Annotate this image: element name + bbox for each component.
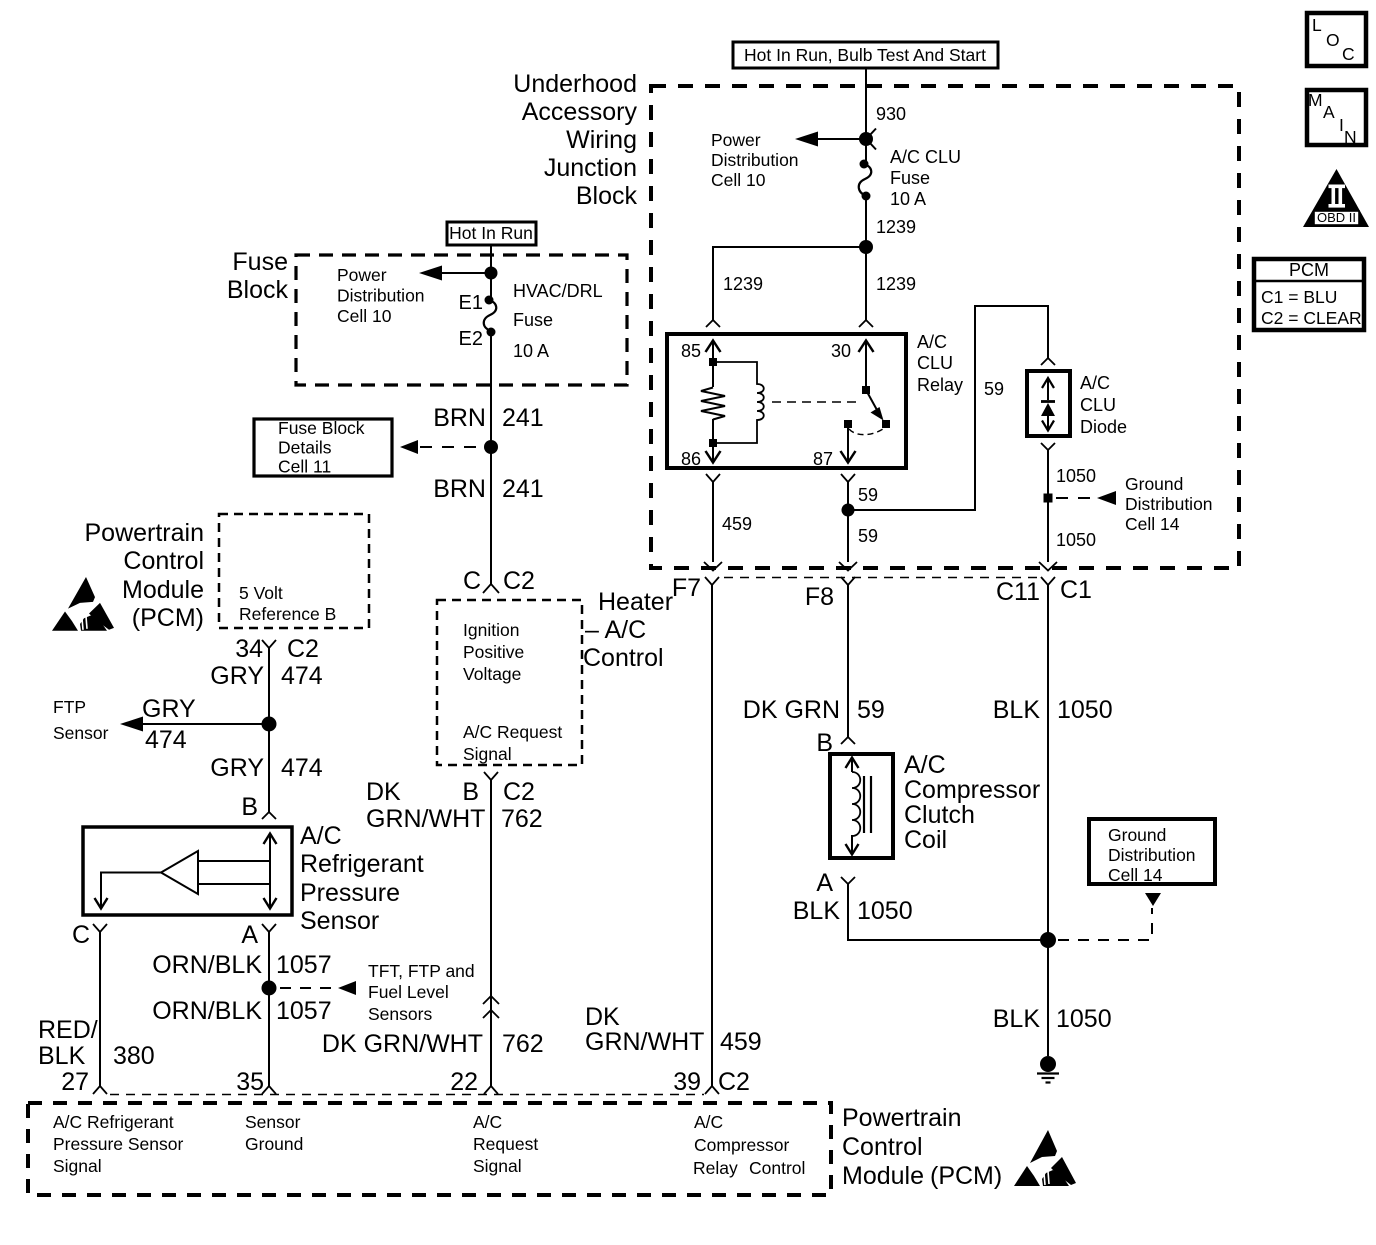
svg-text:34: 34 <box>235 635 263 663</box>
svg-text:930: 930 <box>876 104 906 124</box>
connector F8 start <box>841 577 855 585</box>
svg-text:459: 459 <box>720 1028 762 1056</box>
connector start below sensor pin A <box>262 924 276 932</box>
heater A/C control dashed box <box>437 600 582 765</box>
svg-text:DK: DK <box>366 778 401 806</box>
svg-text:GRN/WHT: GRN/WHT <box>585 1028 704 1056</box>
svg-text:1050: 1050 <box>1056 530 1096 550</box>
svg-text:Sensors: Sensors <box>368 1004 432 1024</box>
label A/C Request Signal (PCM) <box>473 1112 538 1176</box>
label FTP Sensor <box>53 697 109 743</box>
relay actuation dashed link <box>772 401 860 403</box>
node junction to FTP sensor <box>262 717 277 732</box>
label Fuse Block <box>227 248 289 304</box>
relay pin 87 contact junction <box>844 420 852 428</box>
svg-text:BRN: BRN <box>433 404 486 432</box>
svg-text:Cell 14: Cell 14 <box>1108 865 1163 885</box>
svg-text:A/C: A/C <box>694 1112 723 1132</box>
svg-text:Hot In Run, Bulb Test And Star: Hot In Run, Bulb Test And Start <box>744 45 986 65</box>
svg-text:10 A: 10 A <box>890 189 926 209</box>
svg-text:Block: Block <box>227 276 289 304</box>
svg-text:C11: C11 <box>996 578 1040 606</box>
svg-text:Fuel Level: Fuel Level <box>368 982 449 1002</box>
connector start below relay pin 87 <box>841 474 855 482</box>
connector 34 of C2 start <box>262 640 276 648</box>
svg-text:459: 459 <box>722 514 752 534</box>
wire down to relay pin 30 <box>865 247 867 320</box>
svg-text:A/C Request: A/C Request <box>463 722 562 742</box>
node split junction <box>859 240 873 254</box>
label RED/ BLK <box>38 1016 98 1070</box>
svg-text:Cell 10: Cell 10 <box>337 306 392 326</box>
svg-text:Request: Request <box>473 1134 538 1154</box>
svg-text:B: B <box>241 793 258 821</box>
svg-text:PCM: PCM <box>1289 260 1329 280</box>
svg-text:30: 30 <box>831 341 851 361</box>
relay coil winding (parallel inductor) <box>713 362 764 443</box>
svg-text:10 A: 10 A <box>513 341 549 361</box>
diode A/C CLU Diode box <box>1027 371 1070 436</box>
svg-text:Control: Control <box>749 1158 805 1178</box>
svg-text:1239: 1239 <box>876 274 916 294</box>
svg-text:TFT, FTP and: TFT, FTP and <box>368 961 475 981</box>
svg-text:474: 474 <box>281 754 323 782</box>
svg-text:Relay: Relay <box>917 375 963 395</box>
svg-text:Compressor: Compressor <box>694 1135 789 1155</box>
wire DK GRN 59 from F8 to coil <box>847 585 849 737</box>
svg-text:39: 39 <box>673 1068 701 1096</box>
connector end into PCM pin 22 <box>484 1086 498 1094</box>
svg-text:Signal: Signal <box>463 744 512 764</box>
svg-text:C1 = BLU: C1 = BLU <box>1261 287 1337 307</box>
svg-text:1057: 1057 <box>276 997 332 1025</box>
connector start below sensor pin C <box>93 924 107 932</box>
node splice junction at power distribution tap <box>859 132 873 146</box>
svg-text:A/C: A/C <box>1080 373 1110 393</box>
coil winding symbol <box>846 758 872 855</box>
svg-text:C1: C1 <box>1060 576 1092 604</box>
svg-text:Distribution: Distribution <box>711 150 799 170</box>
connector C1 start at pin C11 <box>1041 577 1055 585</box>
label A/C CLU Fuse 10 A <box>890 147 961 209</box>
svg-text:GRY: GRY <box>142 695 196 723</box>
wire fuse to split junction <box>865 196 867 247</box>
dashed reference to Ground Distribution Cell 14 (lower) <box>1058 893 1161 940</box>
ESD sensitive symbol upper left <box>52 577 114 631</box>
svg-text:35: 35 <box>236 1068 264 1096</box>
connector end into relay pin 30 <box>859 320 873 327</box>
svg-text:86: 86 <box>681 449 701 469</box>
svg-text:C: C <box>72 921 90 949</box>
relay pin 86 arrow <box>706 447 721 463</box>
relay switch pivot junction <box>862 386 870 394</box>
dashed reference arrow to TFT FTP and Fuel Level Sensors <box>280 981 356 995</box>
label A/C Compressor Clutch Coil <box>904 751 1040 854</box>
connector start below relay pin 86 <box>706 474 720 482</box>
svg-text:Cell 11: Cell 11 <box>278 457 331 477</box>
svg-text:Details: Details <box>278 438 332 458</box>
svg-text:762: 762 <box>502 1030 544 1058</box>
thin dashed connector strip below underhood box <box>724 577 1040 579</box>
wire GRY 474 upper <box>268 648 270 812</box>
svg-text:85: 85 <box>681 341 701 361</box>
relay pin 85 arrow <box>706 341 721 363</box>
svg-text:Cell 10: Cell 10 <box>711 170 766 190</box>
wire BLK 1050 from C1 down to ground <box>1047 585 1049 1056</box>
svg-text:F8: F8 <box>805 583 834 611</box>
thin dashed connector strip above PCM box <box>110 1094 704 1096</box>
svg-text:1050: 1050 <box>1056 466 1096 486</box>
label TFT FTP and Fuel Level Sensors <box>368 961 475 1024</box>
svg-text:Positive: Positive <box>463 642 524 662</box>
svg-text:E1: E1 <box>459 292 483 314</box>
label Power Distribution Cell 10 (fuse block) <box>337 265 425 326</box>
svg-text:BLK: BLK <box>993 1005 1041 1033</box>
svg-text:M: M <box>1308 90 1323 110</box>
node junction to TFT FTP sensors <box>262 981 277 996</box>
connector end into PCM pin 39 <box>705 1086 719 1094</box>
node junction on 59 wire <box>842 504 855 517</box>
svg-text:(PCM): (PCM) <box>132 604 204 632</box>
svg-text:HVAC/DRL: HVAC/DRL <box>513 281 603 301</box>
svg-text:FTP: FTP <box>53 697 86 717</box>
svg-text:Fuse: Fuse <box>513 310 553 330</box>
svg-text:A/C: A/C <box>904 751 946 779</box>
svg-text:762: 762 <box>501 805 543 833</box>
svg-text:C: C <box>463 567 481 595</box>
svg-text:A/C: A/C <box>917 332 947 352</box>
svg-text:1057: 1057 <box>276 951 332 979</box>
wire branch to relay pin 85 <box>713 247 866 320</box>
wire 59 from relay 87 to F8 <box>847 482 849 562</box>
node junction at power distribution tap (fuse block) <box>485 267 498 280</box>
svg-text:CLU: CLU <box>917 353 953 373</box>
svg-text:1050: 1050 <box>857 897 913 925</box>
svg-text:A/C Refrigerant: A/C Refrigerant <box>53 1112 174 1132</box>
label Powertrain Control Module (PCM) upper left <box>85 519 205 632</box>
svg-text:F7: F7 <box>672 574 701 602</box>
coil A/C Compressor Clutch Coil box <box>830 754 893 858</box>
svg-text:Voltage: Voltage <box>463 664 521 684</box>
wire 459 from relay 86 to F7 <box>712 482 714 562</box>
relay switch arm arrow <box>866 390 884 421</box>
svg-text:Ignition: Ignition <box>463 620 519 640</box>
relay pin 87 arrow <box>841 428 856 463</box>
svg-text:Accessory: Accessory <box>522 98 638 126</box>
wire DK GRN/WHT 459 from F7 to pin 39 <box>711 585 713 1086</box>
svg-text:5 Volt: 5 Volt <box>239 583 283 603</box>
arrowhead into underhood border at F8 <box>839 562 857 571</box>
Underhood Accessory Wiring Junction Block dashed box <box>651 86 1239 568</box>
ESD sensitive symbol bottom right <box>1014 1130 1076 1186</box>
diode internal symbol <box>1041 378 1055 431</box>
svg-text:Junction: Junction <box>544 154 637 182</box>
svg-text:C: C <box>1342 44 1355 64</box>
label HVAC/DRL Fuse 10 A <box>513 281 603 361</box>
ground symbol <box>1037 1056 1059 1083</box>
svg-text:Sensor: Sensor <box>53 723 109 743</box>
svg-text:GRY: GRY <box>210 662 264 690</box>
svg-text:Relay: Relay <box>693 1158 738 1178</box>
svg-text:Control: Control <box>842 1133 923 1161</box>
svg-text:B: B <box>462 778 479 806</box>
svg-text:Block: Block <box>576 182 638 210</box>
svg-text:C2 = CLEAR: C2 = CLEAR <box>1261 308 1362 328</box>
svg-text:474: 474 <box>281 662 323 690</box>
svg-text:BLK: BLK <box>993 696 1041 724</box>
svg-text:Distribution: Distribution <box>1108 845 1196 865</box>
label Heater - A/C Control <box>583 588 673 672</box>
sensor output line with arrow <box>95 873 162 909</box>
svg-text:Sensor: Sensor <box>300 907 379 935</box>
svg-text:Compressor: Compressor <box>904 776 1040 804</box>
wire from Hot In Run into fuse block <box>490 245 492 300</box>
label Powertrain Control Module (PCM) bottom <box>842 1104 1002 1190</box>
Hot In Run label box <box>447 222 536 245</box>
label A/C Request Signal (inside box) <box>463 722 562 764</box>
resistor inside relay <box>701 362 725 443</box>
svg-text:59: 59 <box>857 696 885 724</box>
wire 930 from Hot In Run down to junction <box>865 68 867 139</box>
label A/C Compressor Relay Control <box>693 1112 805 1178</box>
svg-text:Powertrain: Powertrain <box>842 1104 962 1132</box>
svg-text:1239: 1239 <box>723 274 763 294</box>
svg-text:Ground: Ground <box>1108 825 1166 845</box>
wire 59 loop from junction to diode <box>848 306 1048 510</box>
svg-text:A: A <box>816 869 833 897</box>
sensor internal supply line with arrows <box>264 834 277 909</box>
svg-text:C2: C2 <box>718 1068 750 1096</box>
svg-text:ORN/BLK: ORN/BLK <box>152 997 262 1025</box>
svg-text:C2: C2 <box>287 635 319 663</box>
svg-text:OBD II: OBD II <box>1317 210 1356 225</box>
connector end into diode top <box>1041 358 1055 365</box>
wire RED/BLK 380 <box>99 932 101 1086</box>
svg-text:Control: Control <box>583 644 664 672</box>
svg-text:Distribution: Distribution <box>1125 494 1213 514</box>
wire arrow to Power Distribution Cell 10 (fuse block) <box>419 266 485 281</box>
connector end into PCM pin 35 <box>262 1086 276 1094</box>
svg-text:87: 87 <box>813 449 833 469</box>
Ground Distribution Cell 14 box (lower) <box>1089 819 1215 885</box>
Hot In Run, Bulb Test And Start label box <box>733 42 998 68</box>
OBD II icon triangle <box>1303 169 1369 227</box>
wire arrow to FTP Sensor <box>120 717 262 732</box>
svg-text:Wiring: Wiring <box>566 126 637 154</box>
svg-text:Pressure Sensor: Pressure Sensor <box>53 1134 184 1154</box>
label Ground Distribution Cell 14 (upper) <box>1125 474 1213 534</box>
relay switch dashed throw arc <box>849 429 883 435</box>
svg-text:Hot In Run: Hot In Run <box>449 223 533 243</box>
fuse block dashed box <box>296 255 627 385</box>
label A/C Refrigerant Pressure Sensor <box>300 822 424 935</box>
svg-text:Sensor: Sensor <box>245 1112 301 1132</box>
svg-text:1050: 1050 <box>1056 1005 1112 1033</box>
svg-text:Powertrain: Powertrain <box>85 519 205 547</box>
svg-text:Clutch: Clutch <box>904 801 975 829</box>
node junction of coil return and ground wire <box>1040 932 1056 948</box>
connector end into PCM pin 27 <box>93 1086 107 1094</box>
svg-text:DK GRN/WHT: DK GRN/WHT <box>322 1030 483 1058</box>
svg-text:C2: C2 <box>503 567 535 595</box>
relay coil bottom junction <box>709 439 717 447</box>
dashed reference arrow to Ground Distribution Cell 14 <box>1056 491 1116 505</box>
wire arrow to Power Distribution Cell 10 <box>795 132 860 147</box>
connector start below coil pin A <box>841 877 855 884</box>
Fuse Block Details Cell 11 box <box>254 418 392 477</box>
svg-text:A: A <box>1323 102 1335 122</box>
svg-text:A/C CLU: A/C CLU <box>890 147 961 167</box>
wire DK GRN/WHT 762 down <box>490 780 492 1086</box>
connector end into relay pin 85 <box>706 320 720 327</box>
wire BRN 241 from fuse to junction <box>490 332 492 447</box>
svg-text:Refrigerant: Refrigerant <box>300 850 424 878</box>
PCM connector legend table <box>1254 259 1364 330</box>
dashed reference arrow to Fuse Block Details <box>400 440 480 454</box>
fuse HVAC/DRL Fuse 10 A <box>484 296 497 337</box>
svg-text:Coil: Coil <box>904 826 947 854</box>
svg-text:Fuse Block: Fuse Block <box>278 418 365 438</box>
svg-text:O: O <box>1326 30 1340 50</box>
node square tap to ground distribution <box>1044 494 1053 503</box>
wire BRN 241 from junction to connector C <box>490 447 492 584</box>
svg-text:A/C: A/C <box>300 822 342 850</box>
wire ORN/BLK 1057 <box>268 932 270 1086</box>
sensor A/C Refrigerant Pressure Sensor box <box>83 827 292 915</box>
svg-text:Signal: Signal <box>53 1156 102 1176</box>
svg-text:Ground: Ground <box>245 1134 303 1154</box>
svg-text:22: 22 <box>450 1068 478 1096</box>
svg-text:Signal: Signal <box>473 1156 522 1176</box>
svg-text:59: 59 <box>984 379 1004 399</box>
wire junction to fuse <box>865 139 867 164</box>
svg-text:Module: Module <box>842 1162 924 1190</box>
wire break chevrons <box>483 996 499 1018</box>
label A/C CLU Relay <box>917 332 963 395</box>
svg-text:Fuse: Fuse <box>232 248 288 276</box>
svg-text:1050: 1050 <box>1057 696 1113 724</box>
arrowhead into underhood border at F7 <box>704 562 722 571</box>
arrowhead into underhood border at C1 <box>1039 562 1057 571</box>
connector F7 start <box>705 577 719 585</box>
label A/C Refrigerant Pressure Sensor Signal <box>53 1112 184 1176</box>
svg-text:BLK: BLK <box>38 1042 86 1070</box>
svg-text:A/C: A/C <box>473 1112 502 1132</box>
label DK GRN/WHT upper <box>366 778 485 833</box>
svg-text:Underhood: Underhood <box>513 70 637 98</box>
label Sensor Ground <box>245 1112 303 1154</box>
svg-text:CLU: CLU <box>1080 395 1116 415</box>
svg-text:GRY: GRY <box>210 754 264 782</box>
svg-text:380: 380 <box>113 1042 155 1070</box>
svg-text:27: 27 <box>61 1068 89 1096</box>
relay pin 30 arrow <box>859 341 874 391</box>
relay switch contact junction <box>882 420 890 428</box>
svg-text:Heater: Heater <box>598 588 673 616</box>
svg-text:C2: C2 <box>503 778 535 806</box>
svg-text:Fuse: Fuse <box>890 168 930 188</box>
label Power Distribution Cell 10 (underhood) <box>711 130 799 190</box>
connector end into sensor pin B <box>262 812 276 819</box>
svg-text:Power: Power <box>711 130 761 150</box>
svg-text:Cell 14: Cell 14 <box>1125 514 1180 534</box>
Underhood Accessory Wiring Junction Block label <box>513 70 637 210</box>
wire 1050 from diode to C1 <box>1047 450 1049 562</box>
svg-text:(PCM): (PCM) <box>930 1162 1002 1190</box>
5 Volt Reference B dashed box <box>219 514 369 628</box>
svg-text:59: 59 <box>858 526 878 546</box>
svg-text:RED/: RED/ <box>38 1016 98 1044</box>
MAIN icon box <box>1307 90 1366 147</box>
svg-text:Reference B: Reference B <box>239 604 336 624</box>
connector end into coil pin B <box>841 737 855 744</box>
svg-text:Module: Module <box>122 576 204 604</box>
svg-text:Distribution: Distribution <box>337 286 425 306</box>
svg-text:Control: Control <box>123 547 204 575</box>
PCM bottom dashed box <box>28 1103 831 1195</box>
svg-text:474: 474 <box>145 726 187 754</box>
node junction to fuse block details <box>484 440 498 454</box>
svg-text:241: 241 <box>502 404 544 432</box>
connector start below diode <box>1041 443 1055 450</box>
svg-text:DK GRN: DK GRN <box>743 696 840 724</box>
svg-text:Power: Power <box>337 265 387 285</box>
svg-text:Diode: Diode <box>1080 417 1127 437</box>
relay A/C CLU Relay box <box>667 334 906 468</box>
sensor input lines <box>198 861 270 884</box>
connector end C of C2 <box>483 584 499 593</box>
svg-text:GRN/WHT: GRN/WHT <box>366 805 485 833</box>
svg-text:L: L <box>1312 15 1322 35</box>
svg-text:BLK: BLK <box>793 897 841 925</box>
svg-text:A: A <box>241 921 258 949</box>
label A/C CLU Diode <box>1080 373 1127 437</box>
svg-text:E2: E2 <box>459 328 483 350</box>
svg-text:N: N <box>1344 127 1357 147</box>
svg-text:1239: 1239 <box>876 217 916 237</box>
LOC icon box <box>1307 13 1366 66</box>
label Ignition Positive Voltage <box>463 620 524 684</box>
svg-text:– A/C: – A/C <box>585 616 646 644</box>
relay coil top junction <box>709 358 717 366</box>
svg-text:Pressure: Pressure <box>300 879 400 907</box>
wire BLK 1050 from coil A to ground junction <box>848 884 1048 940</box>
svg-text:Ground: Ground <box>1125 474 1183 494</box>
fuse A/C CLU Fuse 10 A <box>859 160 872 201</box>
svg-text:ORN/BLK: ORN/BLK <box>152 951 262 979</box>
connector B of C2 start <box>484 772 498 780</box>
svg-text:241: 241 <box>502 475 544 503</box>
svg-text:DK: DK <box>585 1003 620 1031</box>
svg-text:BRN: BRN <box>433 475 486 503</box>
svg-text:59: 59 <box>858 485 878 505</box>
sensor internal amplifier triangle <box>161 851 198 894</box>
